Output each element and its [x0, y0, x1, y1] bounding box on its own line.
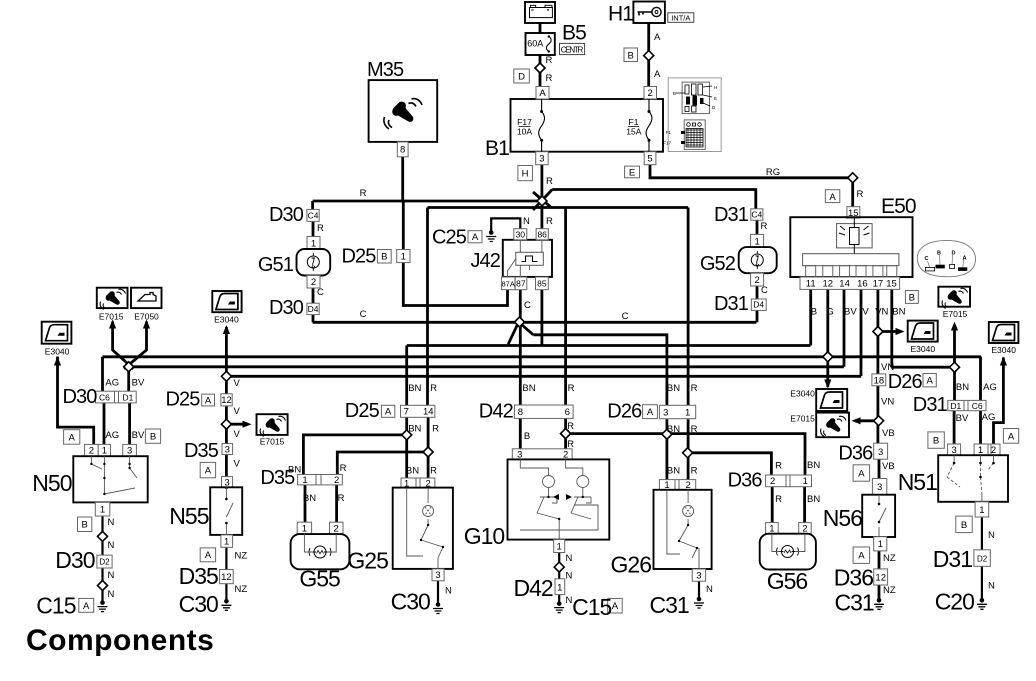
svg-text:D31: D31 — [714, 293, 749, 315]
svg-text:R: R — [568, 383, 575, 394]
svg-text:2: 2 — [334, 475, 339, 486]
svg-text:BN: BN — [807, 494, 820, 505]
svg-text:G10: G10 — [464, 523, 505, 549]
svg-text:N50: N50 — [32, 470, 71, 496]
svg-text:R: R — [546, 216, 553, 227]
svg-text:1: 1 — [769, 524, 774, 535]
svg-text:N: N — [108, 589, 115, 600]
svg-text:15A: 15A — [626, 127, 641, 137]
svg-text:N: N — [566, 553, 573, 564]
svg-text:2: 2 — [425, 479, 430, 490]
svg-text:G56: G56 — [767, 568, 808, 594]
svg-text:1: 1 — [102, 446, 107, 457]
svg-text:N: N — [988, 581, 995, 592]
svg-text:D35: D35 — [179, 563, 218, 589]
svg-text:1: 1 — [664, 480, 669, 491]
svg-text:Components: Components — [26, 624, 214, 657]
svg-text:12: 12 — [823, 279, 834, 290]
svg-text:D30: D30 — [55, 547, 94, 573]
svg-text:14: 14 — [839, 279, 850, 290]
svg-text:1: 1 — [803, 476, 808, 487]
svg-text:H: H — [522, 169, 529, 180]
svg-text:1: 1 — [878, 539, 883, 550]
svg-text:F1: F1 — [666, 130, 672, 135]
svg-text:1: 1 — [685, 407, 690, 418]
svg-text:R: R — [761, 221, 768, 232]
svg-text:B: B — [961, 520, 967, 531]
svg-text:BV: BV — [132, 430, 145, 441]
svg-text:3: 3 — [663, 407, 668, 418]
svg-text:BN: BN — [288, 464, 301, 475]
svg-text:G51: G51 — [258, 254, 294, 276]
svg-text:B: B — [909, 292, 915, 303]
svg-text:18: 18 — [874, 375, 885, 386]
svg-text:D36: D36 — [728, 470, 763, 492]
svg-text:J42: J42 — [470, 250, 500, 272]
svg-text:E7015: E7015 — [790, 414, 815, 424]
svg-text:B: B — [933, 436, 939, 447]
svg-text:BN: BN — [408, 424, 421, 435]
svg-text:E3040: E3040 — [991, 345, 1016, 355]
svg-text:A: A — [963, 256, 967, 262]
svg-text:1: 1 — [557, 583, 562, 594]
svg-text:C31: C31 — [649, 592, 688, 618]
svg-text:A: A — [385, 407, 392, 418]
svg-text:B: B — [811, 306, 817, 317]
svg-text:AG: AG — [105, 430, 119, 441]
svg-text:A: A — [205, 466, 212, 477]
svg-text:BV: BV — [844, 306, 857, 317]
svg-text:NZ: NZ — [883, 585, 896, 596]
svg-text:E3040: E3040 — [45, 346, 70, 356]
svg-text:A: A — [927, 376, 934, 387]
svg-text:3: 3 — [225, 444, 230, 455]
svg-text:R: R — [546, 55, 553, 66]
svg-text:3: 3 — [878, 447, 883, 458]
svg-text:B: B — [937, 251, 941, 257]
svg-text:BN: BN — [892, 306, 905, 317]
svg-text:1: 1 — [302, 524, 307, 535]
svg-text:C25: C25 — [432, 227, 467, 249]
svg-text:V: V — [234, 459, 241, 470]
svg-text:B1: B1 — [485, 137, 509, 160]
svg-text:8: 8 — [518, 407, 523, 418]
svg-text:N: N — [108, 517, 115, 528]
svg-text:C30: C30 — [391, 589, 430, 615]
svg-text:D26: D26 — [607, 401, 642, 423]
svg-text:12: 12 — [875, 572, 886, 583]
svg-text:86: 86 — [537, 230, 547, 240]
svg-text:R: R — [430, 466, 437, 477]
svg-text:G25: G25 — [347, 548, 388, 574]
svg-text:AG: AG — [982, 412, 996, 423]
svg-text:3: 3 — [435, 570, 440, 581]
svg-text:BV: BV — [132, 378, 145, 389]
svg-text:D25: D25 — [342, 246, 377, 268]
svg-text:E50: E50 — [881, 195, 916, 218]
svg-text:B: B — [673, 91, 676, 96]
svg-text:E7050: E7050 — [134, 311, 159, 321]
svg-text:87: 87 — [516, 279, 526, 289]
svg-text:C6: C6 — [972, 401, 983, 411]
svg-text:D25: D25 — [166, 389, 201, 411]
svg-text:1: 1 — [302, 475, 307, 486]
svg-text:INT/A: INT/A — [671, 14, 690, 23]
svg-text:E: E — [714, 96, 717, 101]
svg-text:R: R — [317, 223, 324, 234]
svg-text:10A: 10A — [517, 127, 532, 137]
svg-text:6: 6 — [565, 407, 570, 418]
svg-text:D1: D1 — [950, 401, 961, 411]
svg-text:C4: C4 — [751, 210, 762, 220]
svg-text:C31: C31 — [834, 590, 873, 616]
svg-text:N51: N51 — [898, 469, 937, 495]
svg-text:2: 2 — [89, 446, 94, 457]
svg-text:R: R — [546, 176, 553, 187]
svg-text:VN: VN — [875, 306, 888, 317]
svg-text:V: V — [234, 429, 241, 440]
svg-text:3: 3 — [517, 449, 522, 460]
svg-text:C: C — [524, 300, 531, 311]
svg-text:3: 3 — [877, 482, 882, 493]
svg-text:A: A — [647, 407, 654, 418]
svg-text:E: E — [629, 168, 635, 179]
svg-text:2: 2 — [563, 449, 568, 460]
svg-text:V: V — [862, 306, 869, 317]
svg-text:C: C — [360, 309, 367, 320]
svg-text:R: R — [567, 421, 574, 432]
svg-text:N: N — [566, 595, 573, 606]
svg-text:E7015: E7015 — [99, 311, 124, 321]
svg-text:D30: D30 — [63, 386, 98, 408]
svg-text:E3040: E3040 — [790, 389, 815, 399]
svg-text:VB: VB — [882, 428, 895, 439]
svg-text:NZ: NZ — [883, 553, 896, 564]
svg-text:D4: D4 — [308, 304, 319, 314]
svg-text:R: R — [775, 461, 782, 472]
svg-text:BN: BN — [807, 460, 820, 471]
svg-text:N: N — [706, 584, 713, 595]
svg-text:N: N — [108, 570, 115, 581]
svg-text:D42: D42 — [479, 401, 514, 423]
svg-text:14: 14 — [423, 407, 434, 418]
svg-text:R: R — [432, 424, 439, 435]
svg-text:1: 1 — [754, 236, 759, 247]
svg-text:C15: C15 — [572, 594, 611, 620]
svg-text:1: 1 — [979, 505, 984, 516]
svg-text:3: 3 — [539, 154, 544, 165]
svg-text:BN: BN — [522, 383, 535, 394]
svg-text:G26: G26 — [611, 552, 652, 578]
svg-text:NZ: NZ — [235, 584, 248, 595]
svg-text:1: 1 — [311, 238, 316, 249]
svg-text:30: 30 — [516, 230, 526, 240]
svg-text:A: A — [858, 468, 865, 479]
svg-text:60A: 60A — [527, 39, 543, 49]
svg-text:2: 2 — [334, 524, 339, 535]
svg-text:3: 3 — [224, 477, 229, 488]
svg-text:BN: BN — [667, 383, 680, 394]
svg-text:R: R — [691, 466, 698, 477]
svg-text:N: N — [108, 540, 115, 551]
svg-text:R: R — [691, 424, 698, 435]
svg-text:7: 7 — [404, 407, 409, 418]
svg-text:D2: D2 — [99, 558, 110, 567]
svg-text:C: C — [622, 311, 629, 322]
svg-text:2: 2 — [311, 277, 316, 288]
svg-text:3: 3 — [127, 446, 132, 457]
svg-text:BN: BN — [667, 424, 680, 435]
svg-text:R: R — [857, 189, 864, 200]
svg-text:N: N — [523, 216, 530, 227]
svg-text:N: N — [445, 586, 452, 597]
svg-text:C: C — [761, 285, 768, 296]
svg-text:D30: D30 — [269, 297, 304, 319]
svg-text:F1: F1 — [629, 117, 639, 127]
svg-text:B: B — [150, 432, 156, 443]
svg-text:E7015: E7015 — [260, 436, 285, 446]
svg-text:BN: BN — [956, 382, 969, 393]
svg-text:A: A — [472, 232, 479, 243]
svg-text:BV: BV — [956, 413, 969, 424]
svg-text:BN: BN — [408, 383, 421, 394]
svg-text:5: 5 — [647, 154, 652, 165]
svg-text:2: 2 — [770, 476, 775, 487]
svg-text:D31: D31 — [933, 546, 972, 572]
svg-text:D: D — [952, 251, 956, 257]
svg-text:A: A — [654, 69, 661, 80]
svg-text:2: 2 — [802, 524, 807, 535]
svg-text:G52: G52 — [700, 253, 736, 275]
svg-text:D4: D4 — [753, 300, 764, 310]
svg-text:1: 1 — [401, 252, 406, 263]
svg-text:R: R — [567, 439, 574, 450]
svg-text:R: R — [338, 493, 345, 504]
svg-text:D36: D36 — [834, 565, 873, 591]
svg-text:D30: D30 — [269, 204, 304, 226]
svg-text:R: R — [360, 188, 367, 199]
svg-text:D1: D1 — [122, 392, 133, 402]
svg-text:A: A — [83, 601, 90, 612]
svg-text:A: A — [612, 601, 619, 612]
svg-text:C15: C15 — [36, 593, 75, 619]
svg-text:A: A — [858, 551, 865, 562]
svg-text:B: B — [82, 520, 88, 531]
svg-text:D: D — [518, 72, 525, 83]
svg-text:C6: C6 — [99, 392, 110, 402]
svg-text:1: 1 — [404, 479, 409, 490]
svg-text:D31: D31 — [714, 204, 749, 226]
svg-text:B: B — [524, 431, 530, 442]
svg-text:G: G — [826, 306, 833, 317]
svg-text:M35: M35 — [367, 59, 404, 81]
svg-text:G55: G55 — [299, 566, 340, 592]
svg-text:VN: VN — [881, 397, 894, 408]
svg-text:2: 2 — [648, 88, 653, 99]
svg-text:BN: BN — [667, 466, 680, 477]
svg-text:15: 15 — [848, 208, 859, 219]
svg-text:B: B — [381, 252, 387, 263]
svg-text:D36: D36 — [838, 443, 873, 465]
svg-text:C30: C30 — [179, 591, 218, 617]
svg-text:RG: RG — [766, 167, 780, 178]
svg-text:BN: BN — [303, 493, 316, 504]
svg-text:R: R — [340, 463, 347, 474]
svg-text:R: R — [546, 73, 553, 84]
svg-text:11: 11 — [806, 279, 816, 290]
svg-text:C4: C4 — [308, 210, 319, 220]
svg-text:B5: B5 — [562, 22, 586, 45]
svg-text:E3040: E3040 — [214, 315, 239, 325]
svg-text:D25: D25 — [345, 400, 380, 422]
svg-text:D31: D31 — [913, 394, 948, 416]
svg-text:2: 2 — [754, 275, 759, 286]
svg-text:15: 15 — [886, 279, 897, 290]
svg-text:D42: D42 — [513, 575, 552, 601]
svg-text:C: C — [317, 287, 324, 298]
svg-text:87A: 87A — [502, 280, 515, 289]
svg-text:V: V — [234, 406, 241, 417]
svg-text:1: 1 — [224, 537, 229, 548]
svg-text:N: N — [566, 571, 573, 582]
svg-text:12: 12 — [221, 572, 232, 583]
svg-text:R: R — [775, 494, 782, 505]
svg-text:1: 1 — [100, 505, 105, 516]
svg-text:B: B — [628, 50, 634, 61]
svg-text:A: A — [539, 88, 546, 99]
svg-text:D2: D2 — [977, 554, 988, 563]
svg-text:3: 3 — [951, 445, 956, 456]
svg-text:F17: F17 — [663, 141, 671, 146]
svg-text:1: 1 — [557, 541, 562, 552]
svg-text:8: 8 — [400, 145, 405, 156]
svg-text:A: A — [69, 432, 76, 443]
svg-text:BN: BN — [406, 466, 419, 477]
svg-text:2: 2 — [991, 445, 996, 456]
svg-text:12: 12 — [221, 395, 232, 406]
svg-text:NZ: NZ — [235, 551, 248, 562]
svg-text:R: R — [430, 383, 437, 394]
svg-text:H1: H1 — [608, 3, 633, 26]
svg-text:F17: F17 — [517, 117, 532, 127]
svg-text:16: 16 — [857, 279, 868, 290]
svg-text:C20: C20 — [935, 589, 974, 615]
svg-text:N56: N56 — [823, 505, 862, 531]
svg-text:2: 2 — [685, 480, 690, 491]
svg-text:VB: VB — [882, 461, 895, 472]
svg-text:17: 17 — [873, 279, 884, 290]
svg-text:A: A — [1008, 431, 1015, 442]
svg-text:AG: AG — [983, 382, 997, 393]
svg-text:E7015: E7015 — [943, 309, 968, 319]
svg-text:V: V — [234, 378, 241, 389]
svg-text:A: A — [205, 395, 212, 406]
svg-text:H: H — [714, 85, 717, 90]
svg-text:3: 3 — [696, 570, 701, 581]
svg-text:E3040: E3040 — [911, 344, 936, 354]
svg-text:A: A — [829, 192, 836, 203]
svg-text:AG: AG — [105, 378, 119, 389]
svg-text:A: A — [654, 32, 661, 43]
svg-text:D26: D26 — [888, 371, 923, 393]
svg-text:N55: N55 — [169, 503, 208, 529]
svg-text:D35: D35 — [184, 440, 219, 462]
svg-text:R: R — [691, 383, 698, 394]
svg-text:CENTR: CENTR — [561, 45, 584, 54]
svg-text:C: C — [925, 256, 929, 262]
svg-text:VN: VN — [881, 362, 894, 373]
svg-text:85: 85 — [537, 279, 547, 289]
svg-text:A: A — [205, 550, 212, 561]
svg-text:1: 1 — [978, 445, 983, 456]
svg-text:N: N — [988, 530, 995, 541]
